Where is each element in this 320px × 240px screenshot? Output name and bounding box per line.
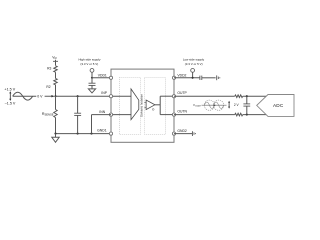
pin VDD1 <box>109 76 112 79</box>
node gnd rail INN drop <box>90 133 92 135</box>
INN tie to gnd <box>92 114 112 116</box>
low-side die dashed box <box>144 78 165 135</box>
node gnd rail left <box>54 133 56 135</box>
wire INP row left <box>56 95 112 97</box>
output swing double arrow <box>228 101 230 109</box>
output fork wires <box>155 104 160 106</box>
svg-text:RSENSE: RSENSE <box>42 112 54 117</box>
source amplitude double arrow <box>9 91 11 101</box>
svg-text:High side supply: High side supply <box>78 57 101 61</box>
pin VDD2 <box>172 76 175 79</box>
wire node to RSENSE <box>55 96 57 109</box>
svg-text:GND1: GND1 <box>97 129 107 133</box>
wire RSENSE to gnd rail <box>55 118 57 134</box>
node VDD1 <box>91 77 93 79</box>
resistor R2 <box>54 78 57 84</box>
resistor R3 <box>54 66 57 72</box>
svg-text:VDD2: VDD2 <box>177 73 186 77</box>
VM rail tick <box>53 60 58 62</box>
pin OUTP <box>172 95 175 98</box>
differential filter cap <box>246 96 248 104</box>
resistor output N <box>235 113 243 116</box>
modulator triangle <box>131 89 139 120</box>
wire INN inside <box>111 114 131 116</box>
high side supply terminal <box>90 69 94 73</box>
svg-text:R2: R2 <box>46 85 50 89</box>
node input <box>54 95 56 97</box>
gnd rail wire (high side) <box>56 133 112 135</box>
ground under cap <box>88 89 95 93</box>
feedback bubble <box>152 109 154 111</box>
ground high-side <box>55 134 57 138</box>
pin INN <box>109 113 112 116</box>
arrow into node <box>45 95 53 97</box>
pin INP <box>109 95 112 98</box>
wire INP inside <box>111 95 131 97</box>
ground low-side supply <box>216 75 218 80</box>
IC body U1 <box>111 69 174 142</box>
svg-text:Galvanic Isolation: Galvanic Isolation <box>140 94 144 117</box>
ADC block <box>257 95 294 117</box>
sine source axis <box>13 95 37 97</box>
svg-text:VM: VM <box>52 55 56 60</box>
svg-text:ADC: ADC <box>273 103 284 108</box>
node gnd rail cap <box>77 133 79 135</box>
wire OUTN row <box>174 114 235 116</box>
low side decoupling cap <box>199 76 201 80</box>
high-side die dashed box <box>119 78 140 135</box>
svg-text:(3.3 V or 5 V): (3.3 V or 5 V) <box>185 62 203 66</box>
svg-text:OUTN: OUTN <box>177 110 187 114</box>
svg-text:VDD1: VDD1 <box>98 73 107 77</box>
node filter N <box>246 114 248 116</box>
pin GND2 <box>172 132 175 135</box>
svg-text:Low side supply: Low side supply <box>183 57 205 61</box>
amp input stubs <box>144 101 146 103</box>
low side supply terminal <box>191 69 195 73</box>
resistor RSENSE <box>54 110 57 118</box>
wire VM to R3 <box>55 60 57 66</box>
svg-text:INN: INN <box>99 110 105 114</box>
node filter P <box>246 95 248 97</box>
pin GND1 <box>109 132 112 135</box>
output amp triangle <box>146 100 155 110</box>
sine source waveform <box>13 92 33 100</box>
svg-text:+1.5 V: +1.5 V <box>4 87 15 91</box>
wire GND2 to ground <box>174 133 192 135</box>
input filter capacitor <box>77 96 79 113</box>
svg-text:–1.5 V: –1.5 V <box>5 101 16 105</box>
svg-text:0 V: 0 V <box>37 95 43 99</box>
svg-text:OUTP: OUTP <box>177 91 187 95</box>
svg-text:R3: R3 <box>47 67 51 71</box>
node VDD2 <box>192 77 194 79</box>
svg-text:INP: INP <box>101 91 107 95</box>
wire R3 to R2 <box>55 72 57 78</box>
wire to VDD1 pin <box>92 77 111 79</box>
pin OUTN <box>172 113 175 116</box>
ground GND2 <box>191 131 193 136</box>
wire VDD2 to cap <box>174 77 200 79</box>
wire R2 to input node <box>55 85 57 96</box>
resistor output P <box>235 95 243 98</box>
high side decoupling cap <box>91 78 93 84</box>
wire OUTP row <box>174 95 235 97</box>
svg-text:GND2: GND2 <box>177 129 187 133</box>
node cap top <box>77 95 79 97</box>
svg-text:(3.3 V or 5 V): (3.3 V or 5 V) <box>80 62 98 66</box>
